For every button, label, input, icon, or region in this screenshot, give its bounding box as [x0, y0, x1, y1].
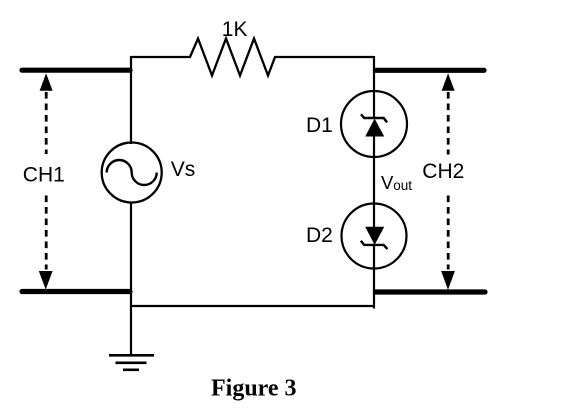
wire between D1 and D2 (node Vout)	[373, 156, 375, 204]
svg-text:D2: D2	[306, 224, 333, 247]
svg-text:D1: D1	[306, 114, 333, 137]
CH2 arrow up head	[442, 73, 455, 91]
svg-text:Vs: Vs	[171, 158, 196, 181]
CH2 arrow down head	[441, 271, 455, 290]
CH2 probe bar top	[376, 68, 485, 73]
label CH1	[20, 154, 66, 194]
wire right vertical (top rail to D1)	[373, 56, 375, 92]
wire top-right horizontal	[274, 56, 374, 58]
wire left vertical (Vs to ground)	[130, 202, 132, 356]
ground	[109, 355, 154, 370]
diode D2 (zener)	[342, 204, 407, 269]
svg-text:Figure 3: Figure 3	[211, 376, 297, 402]
svg-text:CH1: CH1	[23, 164, 65, 187]
CH1 arrow up head	[40, 73, 53, 91]
CH1 dashed line	[45, 92, 48, 270]
svg-text:out: out	[393, 178, 412, 193]
svg-text:CH2: CH2	[422, 160, 464, 183]
label Vout	[381, 172, 412, 193]
CH2 probe bar bottom	[376, 289, 486, 294]
svg-text:1K: 1K	[222, 18, 248, 41]
label CH2	[417, 155, 469, 194]
resistor R1 zigzag	[190, 39, 275, 76]
wire bottom horizontal	[130, 305, 375, 307]
diode D1 (zener)	[341, 91, 407, 157]
CH1 probe bar bottom	[22, 289, 130, 294]
svg-text:V: V	[381, 172, 394, 193]
wire right vertical (D2 to bottom)	[373, 268, 375, 309]
CH2 dashed line	[447, 92, 450, 270]
CH1 arrow down head	[39, 271, 53, 290]
wire left vertical (top rail to Vs)	[130, 56, 132, 144]
CH1 probe bar top	[22, 68, 130, 73]
voltage source Vs	[102, 143, 162, 203]
wire top-left horizontal	[131, 56, 191, 58]
